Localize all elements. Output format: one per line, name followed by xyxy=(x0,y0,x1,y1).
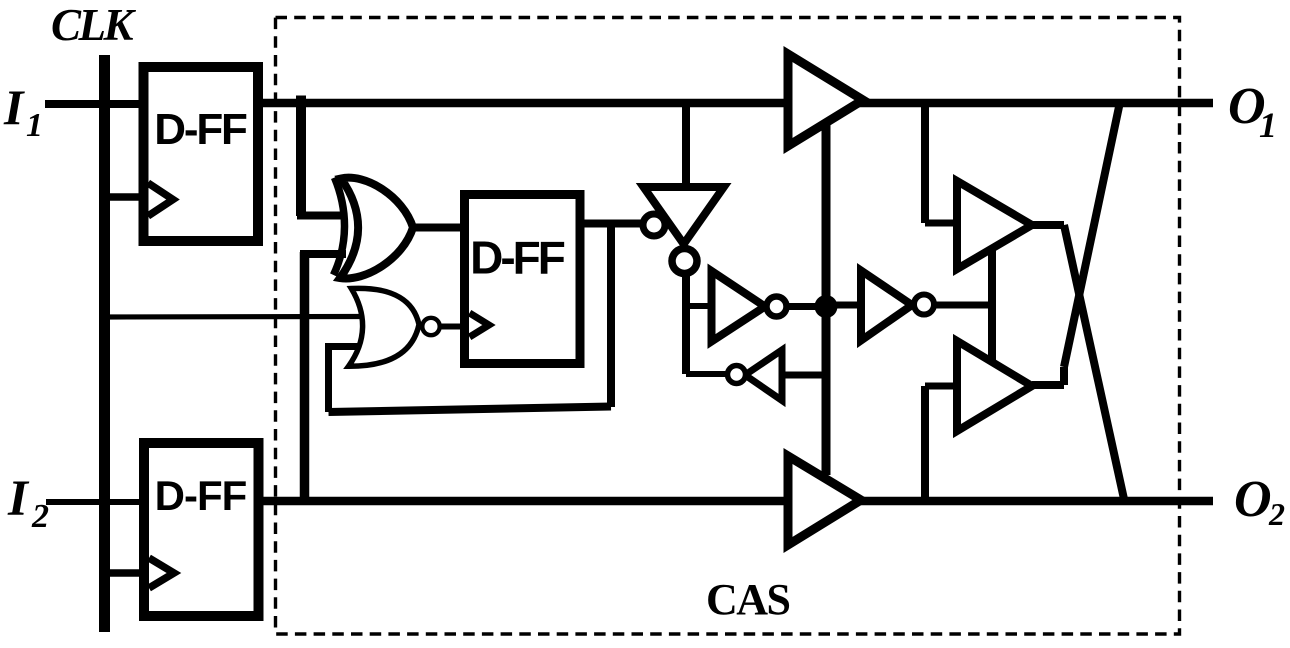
svg-text:2: 2 xyxy=(1268,496,1285,532)
svg-text:I: I xyxy=(7,471,30,527)
svg-text:I: I xyxy=(3,79,25,135)
svg-text:D-FF: D-FF xyxy=(470,232,565,284)
svg-text:D-FF: D-FF xyxy=(155,472,247,519)
svg-text:1: 1 xyxy=(26,107,43,144)
svg-text:1: 1 xyxy=(1259,105,1277,145)
svg-text:D-FF: D-FF xyxy=(154,105,247,154)
svg-text:CAS: CAS xyxy=(706,575,790,624)
svg-text:O: O xyxy=(1234,471,1272,528)
svg-text:CLK: CLK xyxy=(51,0,137,50)
svg-text:2: 2 xyxy=(31,498,49,535)
